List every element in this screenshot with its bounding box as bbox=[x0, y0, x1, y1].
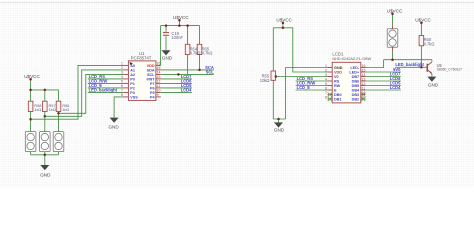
svg-text:P0: P0 bbox=[130, 77, 135, 81]
svg-text:2: 2 bbox=[121, 66, 123, 70]
svg-text:16: 16 bbox=[157, 62, 161, 66]
svg-text:9: 9 bbox=[362, 95, 364, 99]
svg-text:GND: GND bbox=[108, 124, 119, 129]
svg-text:DB3: DB3 bbox=[352, 93, 360, 97]
svg-text:14: 14 bbox=[157, 71, 161, 75]
svg-text:P5: P5 bbox=[150, 91, 155, 95]
svg-text:DB5: DB5 bbox=[352, 84, 360, 88]
svg-text:8: 8 bbox=[325, 95, 327, 99]
svg-text:13: 13 bbox=[157, 75, 161, 79]
svg-text:LCD4: LCD4 bbox=[390, 85, 401, 90]
svg-text:LCD4: LCD4 bbox=[181, 87, 192, 92]
svg-text:GND: GND bbox=[40, 173, 51, 178]
svg-text:VSS: VSS bbox=[130, 95, 138, 99]
svg-text:12: 12 bbox=[362, 82, 366, 86]
svg-text:P7: P7 bbox=[150, 82, 155, 86]
svg-text:LCD1: LCD1 bbox=[332, 52, 344, 57]
svg-text:LED-: LED- bbox=[350, 66, 360, 70]
svg-text:P2: P2 bbox=[130, 86, 135, 90]
svg-text:1: 1 bbox=[121, 62, 123, 66]
svg-text:4.7kΩ: 4.7kΩ bbox=[202, 51, 213, 56]
svg-text:4: 4 bbox=[325, 77, 327, 81]
svg-text:5: 5 bbox=[121, 80, 123, 84]
svg-text:S8050_C760317: S8050_C760317 bbox=[437, 68, 463, 72]
svg-text:8: 8 bbox=[121, 93, 123, 97]
svg-text:6: 6 bbox=[121, 84, 123, 88]
svg-text:U$VCC: U$VCC bbox=[276, 17, 292, 22]
svg-text:SDA: SDA bbox=[147, 68, 155, 72]
svg-text:11: 11 bbox=[362, 86, 366, 90]
svg-text:12: 12 bbox=[157, 80, 161, 84]
svg-text:VDD: VDD bbox=[334, 71, 342, 75]
svg-text:1kΩ: 1kΩ bbox=[34, 107, 41, 112]
svg-text:7: 7 bbox=[121, 89, 123, 93]
svg-text:RW: RW bbox=[334, 84, 341, 88]
svg-text:PCF8574T: PCF8574T bbox=[131, 55, 152, 60]
svg-text:DB0: DB0 bbox=[334, 93, 342, 97]
svg-text:10kΩ: 10kΩ bbox=[260, 78, 270, 83]
svg-text:GND: GND bbox=[162, 56, 173, 61]
svg-text:3: 3 bbox=[325, 73, 327, 77]
svg-text:V0: V0 bbox=[334, 75, 339, 79]
svg-text:GND: GND bbox=[334, 66, 343, 70]
svg-text:P1: P1 bbox=[130, 82, 135, 86]
svg-text:NHD-0240AZ-FL-GBW: NHD-0240AZ-FL-GBW bbox=[332, 57, 371, 61]
svg-text:U$VCC: U$VCC bbox=[415, 17, 431, 22]
svg-text:16: 16 bbox=[362, 64, 366, 68]
svg-text:2: 2 bbox=[325, 68, 327, 72]
svg-text:DB6: DB6 bbox=[352, 80, 360, 84]
svg-text:1kΩ: 1kΩ bbox=[62, 107, 69, 112]
svg-text:#INT: #INT bbox=[146, 77, 155, 81]
svg-text:4.7kΩ: 4.7kΩ bbox=[190, 51, 201, 56]
svg-text:DB2: DB2 bbox=[352, 98, 360, 102]
svg-text:RS: RS bbox=[334, 80, 340, 84]
svg-text:11: 11 bbox=[157, 84, 161, 88]
svg-text:A1: A1 bbox=[130, 68, 135, 72]
svg-text:DB1: DB1 bbox=[334, 98, 342, 102]
svg-text:GND: GND bbox=[428, 82, 439, 87]
svg-text:VDD: VDD bbox=[147, 64, 155, 68]
svg-text:U$VCC: U$VCC bbox=[387, 8, 403, 13]
svg-text:A0: A0 bbox=[130, 64, 135, 68]
svg-text:15: 15 bbox=[362, 68, 366, 72]
svg-text:100nF: 100nF bbox=[171, 35, 183, 40]
svg-text:10: 10 bbox=[362, 91, 366, 95]
svg-text:5: 5 bbox=[325, 82, 327, 86]
svg-text:SCL: SCL bbox=[206, 69, 215, 74]
svg-text:P3: P3 bbox=[130, 91, 135, 95]
svg-text:15: 15 bbox=[157, 66, 161, 70]
svg-text:A2: A2 bbox=[130, 73, 135, 77]
svg-text:1kΩ: 1kΩ bbox=[49, 107, 56, 112]
svg-text:GND: GND bbox=[274, 127, 285, 132]
svg-text:14: 14 bbox=[362, 73, 366, 77]
svg-text:1: 1 bbox=[325, 64, 327, 68]
svg-text:4.7kΩ: 4.7kΩ bbox=[424, 41, 435, 46]
svg-text:LED+: LED+ bbox=[349, 71, 360, 75]
svg-text:7: 7 bbox=[325, 91, 327, 95]
svg-text:9: 9 bbox=[157, 93, 159, 97]
svg-text:3: 3 bbox=[121, 71, 123, 75]
svg-text:SCL: SCL bbox=[147, 73, 155, 77]
svg-text:LCD_E: LCD_E bbox=[297, 85, 311, 90]
svg-text:10: 10 bbox=[157, 89, 161, 93]
svg-text:U$VCC: U$VCC bbox=[24, 74, 40, 79]
svg-text:LED_backlight: LED_backlight bbox=[89, 87, 118, 92]
svg-text:LED_backlight: LED_backlight bbox=[395, 62, 424, 67]
svg-text:DB7: DB7 bbox=[352, 75, 360, 79]
svg-text:DB4: DB4 bbox=[352, 89, 360, 93]
svg-text:13: 13 bbox=[362, 77, 366, 81]
svg-text:P6: P6 bbox=[150, 86, 155, 90]
svg-text:6: 6 bbox=[325, 86, 327, 90]
svg-text:U$VCC: U$VCC bbox=[173, 15, 189, 20]
svg-text:4: 4 bbox=[121, 75, 123, 79]
